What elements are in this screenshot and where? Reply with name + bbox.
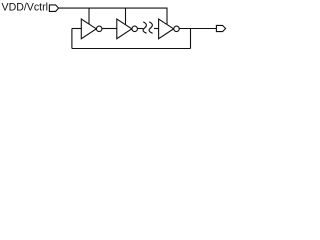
wire feedback drop right bbox=[190, 29, 192, 49]
wire VDD drop to U1 bbox=[88, 8, 90, 24]
wire feedback riser left bbox=[71, 29, 73, 49]
wire VDD rail top bbox=[59, 8, 167, 25]
wire VDD drop to U2 bbox=[125, 8, 127, 25]
wire feedback bottom rail bbox=[72, 48, 191, 50]
output pin bbox=[216, 25, 225, 31]
wire U3 to output pin bbox=[179, 28, 216, 30]
wire U1 to U2 bbox=[102, 28, 117, 30]
wire input to U1 bbox=[72, 28, 81, 30]
inverter U3 bbox=[159, 19, 180, 39]
inverter U2 bbox=[117, 19, 138, 39]
svg-text:VDD/Vctrl: VDD/Vctrl bbox=[2, 2, 49, 14]
input pin VDD/Vctrl bbox=[49, 5, 58, 11]
wire break to U3 bbox=[154, 28, 159, 30]
break squiggle left bbox=[143, 22, 147, 33]
break squiggle right bbox=[149, 22, 153, 33]
inverter U1 bbox=[81, 19, 102, 39]
wire U2 to break bbox=[138, 28, 144, 30]
